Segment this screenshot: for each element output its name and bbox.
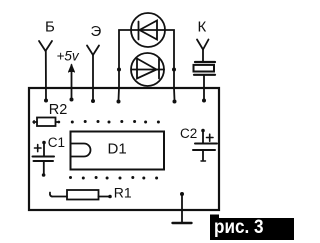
svg-text:D1: D1 [108, 141, 127, 158]
resistor R2 [33, 118, 60, 127]
terminal fork Б [39, 41, 52, 51]
pin dot Б [44, 99, 48, 103]
svg-text:C2: C2 [180, 126, 197, 141]
IC top pin dots [71, 120, 160, 124]
diode VD1 (top, pointing left) [131, 13, 165, 47]
circuit frame [29, 88, 219, 210]
IC D1 body [71, 132, 165, 170]
wire left rail into box [118, 88, 121, 100]
junction dot ground [180, 192, 184, 196]
wire Э to pin [92, 55, 94, 100]
plus sign C2 [207, 134, 214, 141]
capacitor C1 [33, 141, 55, 177]
resistor R1 [50, 190, 112, 200]
wire crystal to pin [203, 75, 205, 100]
wire right rail of diode pair [165, 30, 174, 88]
IC D1 notch [71, 144, 91, 157]
ground bar [173, 222, 192, 224]
svg-text:Э: Э [91, 23, 102, 40]
wire right rail into box [173, 88, 176, 100]
figure label рис. 3 [210, 215, 294, 241]
plus sign C1 [35, 145, 42, 152]
pin dot Э [91, 99, 95, 103]
wire Б to pin [45, 51, 47, 100]
ground wire [181, 194, 183, 223]
wire left rail of diode pair [119, 30, 131, 88]
pin dot left rail [117, 100, 121, 104]
svg-text:К: К [198, 19, 207, 36]
pin dot +5v [70, 98, 74, 102]
capacitor C2 [193, 129, 217, 161]
junction dot left rail [117, 68, 121, 72]
svg-text:R1: R1 [114, 185, 132, 201]
pin dot right rail [173, 100, 177, 104]
pin dot crystal [202, 99, 206, 103]
svg-text:Б: Б [45, 19, 55, 36]
wire К to crystal [202, 50, 204, 62]
IC bottom pin dots [69, 176, 158, 180]
quartz crystal ZQ1 [194, 62, 216, 75]
terminal fork Э [87, 46, 99, 56]
terminal fork К [197, 40, 209, 50]
svg-text:R2: R2 [49, 102, 68, 118]
svg-text:рис. 3: рис. 3 [214, 217, 264, 238]
junction dot right rail [172, 68, 176, 72]
svg-text:C1: C1 [48, 135, 65, 150]
svg-text:+5v: +5v [57, 49, 80, 64]
diode VD2 (bottom, pointing right) [131, 53, 164, 86]
+5v supply arrow [71, 65, 73, 99]
